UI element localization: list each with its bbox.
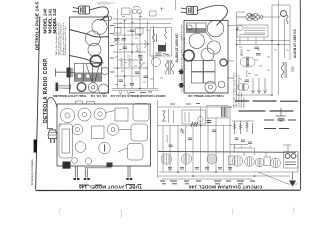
tube V2 [189, 33, 204, 48]
box mid [92, 126, 105, 139]
tuning gang capacitor [74, 64, 101, 82]
speaker [237, 13, 263, 20]
oscillator coil box [182, 110, 206, 124]
leg 1 [74, 166, 80, 180]
note row small 2 [264, 128, 289, 130]
capacitor C7 [130, 84, 135, 86]
choke coil [286, 15, 288, 24]
chassis outline [57, 104, 151, 166]
band switch box [115, 28, 122, 34]
bus labels [130, 91, 152, 94]
shaft 1 [179, 70, 185, 75]
leg 3 [126, 166, 132, 180]
resistor R20 [167, 135, 169, 143]
cord label [59, 124, 63, 126]
tube V3 [88, 43, 101, 56]
svg-text:*75 2nd Det. A.V.C. Diode Pla: *75 2nd Det. A.V.C. Diode Plate 45 V. [238, 74, 241, 108]
bottom bus 3 [162, 178, 252, 180]
dial cable [70, 30, 109, 38]
resistor R2 [129, 58, 131, 67]
company name DETROLA RADIO CORP. [43, 57, 49, 123]
cord to chassis [47, 97, 57, 130]
power transformer [240, 57, 255, 68]
bus labels [170, 103, 200, 106]
top bus wire [113, 19, 173, 24]
interstage transformer [238, 83, 249, 91]
svg-text:Schematics.Nostalgia: Schematics.Nostalgia [31, 159, 34, 186]
mid bus [158, 125, 233, 127]
svg-text:*80 Rectifier: *80 Rectifier [243, 97, 246, 108]
component labels [115, 17, 163, 86]
dial lamp [99, 84, 109, 94]
electrolytic arrows [252, 78, 267, 94]
capacitor C2 [123, 47, 128, 49]
can bottom right [118, 144, 143, 161]
padder cap [207, 121, 212, 123]
footnote row 1 [235, 100, 298, 102]
label dashes zone6 [239, 47, 289, 79]
svg-text:CIRCUIT DIAGRAM MODEL 146: CIRCUIT DIAGRAM MODEL 146 [188, 184, 262, 189]
output transformer windings [165, 60, 173, 75]
variable capacitor arrow [113, 38, 119, 44]
tuning gang [187, 23, 207, 33]
svg-text:140, 141, 142: 140, 141, 142 [90, 94, 107, 98]
caption circuit diagram 146 [188, 184, 262, 189]
dial lamp [220, 59, 227, 66]
dial cord line [161, 0, 176, 11]
top tabs [76, 101, 95, 104]
osc coil dark [158, 45, 166, 52]
svg-text:*41 Power Output: *41 Power Output [240, 92, 243, 108]
diagonal wire [258, 172, 298, 184]
vertical wires [237, 1, 291, 96]
tube D [72, 124, 83, 135]
field coil box [236, 25, 268, 37]
capacitor C12 [245, 80, 250, 82]
coupling coil dark [191, 122, 198, 127]
resistor R3 [145, 40, 147, 48]
caption tube layout model 146 [79, 184, 142, 189]
leg 2 [84, 168, 112, 180]
socket rect A [229, 156, 235, 165]
scan smudge [96, 1, 116, 4]
capacitor C10 [255, 47, 260, 49]
tube V5 [101, 67, 108, 74]
capacitor C20 [169, 145, 173, 147]
tube V1 [92, 19, 107, 34]
capacitor C21 [188, 138, 192, 140]
footnote column [181, 23, 186, 92]
shielded coil [77, 83, 86, 92]
rectifier label [292, 66, 295, 72]
bottom bus wire [112, 89, 158, 91]
left edge wire [157, 101, 159, 179]
capacitor C4 [138, 56, 143, 58]
dark part mid [107, 163, 113, 168]
trimmer cap [180, 128, 185, 134]
power transformer [59, 124, 73, 158]
antenna transformer [133, 7, 142, 14]
chassis outline [184, 21, 228, 94]
tube V1 [207, 20, 224, 37]
svg-text:CIRCUIT DIAGRAM MODELS 140-141: CIRCUIT DIAGRAM MODELS 140-141-142 [110, 94, 165, 98]
tube circle small [151, 57, 160, 66]
align note 1 [175, 33, 179, 63]
resistor R11 [246, 70, 248, 77]
coupling caps row [168, 168, 232, 170]
capacitor C5 [135, 72, 140, 74]
power plug [73, 6, 90, 14]
IF can C [192, 72, 204, 83]
bypass cap C8 [122, 39, 127, 41]
junction dots [236, 40, 280, 96]
trimmer capacitors [156, 53, 170, 55]
tube V5 146 [245, 157, 255, 167]
foot labels [79, 184, 142, 187]
bottom bus 2 [158, 175, 291, 177]
antenna coil box [162, 109, 174, 123]
caption circuit 140-142 [110, 94, 165, 98]
svg-text:*25Z5 Rectifier Cathode 110 V: *25Z5 Rectifier Cathode 110 V. A.C. [64, 25, 67, 55]
socket rect B [264, 157, 271, 166]
wire rows [113, 28, 150, 77]
footnote row 2 [239, 110, 294, 112]
tube V4 146 [232, 156, 242, 166]
filter choke [281, 62, 286, 78]
capacitor C22 [212, 130, 216, 132]
tube V7 146 [271, 158, 281, 168]
bus wires [236, 41, 290, 45]
IF can A [192, 61, 204, 72]
can mid right [131, 124, 148, 141]
tube C with arrow [94, 108, 115, 120]
black redaction bar on border [34, 140, 37, 153]
B+ bus line [158, 151, 296, 154]
detector box [136, 28, 144, 34]
rectifier tube [88, 83, 98, 93]
speaker cable [70, 56, 104, 64]
oscillator coil box [122, 8, 131, 15]
svg-text:ALIGN AT 1650 KC: ALIGN AT 1650 KC [293, 28, 297, 58]
capacitor C11 [256, 54, 261, 56]
vertical wires [163, 107, 230, 172]
RF choke box [150, 11, 157, 16]
tube V1 146 [161, 154, 171, 164]
output IF can [284, 152, 299, 169]
svg-text:TUBE LAYOUT MODELS: TUBE LAYOUT MODELS [55, 94, 86, 98]
IF can D [204, 72, 216, 83]
tube V4 [201, 48, 214, 61]
capacitor C6 [119, 80, 124, 82]
header MODEL 140 [43, 8, 48, 33]
small tube [218, 81, 225, 88]
caption tube layout 146 top [188, 94, 224, 98]
rectifier tube [205, 81, 216, 92]
header MODEL 142 [52, 8, 57, 33]
wire to tubes [254, 148, 256, 155]
tube G [99, 142, 111, 154]
tube V6 146 [255, 158, 264, 167]
page border bottom [36, 189, 301, 191]
output tube [281, 11, 287, 17]
arrow marks [119, 92, 130, 95]
speaker connection [95, 64, 100, 84]
svg-text:*6A7 1st Det. Oscillator Grid: *6A7 1st Det. Oscillator Grid 2.0 V. 90 … [232, 72, 235, 108]
scan artifact parens [59, 208, 294, 218]
wire top [237, 5, 291, 17]
svg-text:ALIGN AT 1650 KC: ALIGN AT 1650 KC [175, 33, 179, 63]
capacitor C1 [115, 39, 120, 41]
grid cap lead [86, 64, 93, 83]
page border left (top edge of rotated page) [36, 17, 40, 190]
tube V2 [85, 31, 100, 46]
page border right [299, 0, 301, 190]
note row small 1 [264, 119, 296, 121]
resistor R10 [241, 49, 243, 55]
svg-text:TUBE LAYOUT MODEL 146: TUBE LAYOUT MODEL 146 [79, 184, 142, 189]
tube V4 shielded [90, 55, 101, 66]
junction dots [117, 20, 149, 90]
bus drops [230, 145, 291, 158]
watermark Schematics.Nostalgia [31, 159, 34, 186]
header MODEL 141 [47, 8, 52, 33]
power plug [181, 7, 198, 15]
tube E with lead [107, 124, 131, 136]
tube labels right [110, 26, 115, 73]
header DETROLA PAGE 14-5 [35, 2, 40, 50]
tuning shaft knob [56, 68, 75, 78]
junction dots [177, 106, 255, 177]
box top right [115, 108, 128, 121]
svg-text:DETROLA RADIO CORP.: DETROLA RADIO CORP. [43, 57, 49, 123]
resistor R1 [121, 58, 123, 67]
power cord [90, 7, 109, 21]
small part 1 [72, 158, 78, 164]
antenna symbol [276, 108, 286, 122]
box drop wires [240, 38, 264, 45]
tube V2 146 [181, 154, 191, 164]
chassis link wires [228, 26, 237, 79]
capacitor C3 [130, 30, 135, 32]
volume shaft [56, 83, 71, 92]
caption tube layout 140-142 [53, 94, 108, 98]
IF coil windings [153, 29, 157, 43]
tube V3 146 [207, 154, 217, 164]
power plug hanging [48, 130, 57, 143]
bottom bus 1 [159, 171, 298, 173]
dial assembly [133, 104, 149, 122]
grid lead [206, 33, 212, 41]
right edge wire [297, 152, 299, 173]
wire bottom [237, 94, 273, 96]
tube B [78, 108, 91, 121]
vertical wires [118, 9, 154, 89]
power cord [198, 5, 228, 25]
tube F [75, 142, 86, 153]
shielded tube [183, 50, 194, 61]
bypass cap C9 [144, 76, 149, 78]
svg-text:25Z5: 25Z5 [292, 66, 295, 72]
align note 2 [293, 28, 297, 58]
chassis outline [70, 17, 109, 93]
ground [289, 172, 296, 187]
IF winding A [165, 28, 167, 46]
top bus [158, 106, 233, 108]
antenna terminal strip [104, 16, 112, 21]
speaker tube [60, 108, 74, 122]
grid resistor [137, 44, 139, 53]
shaft 2 [179, 83, 185, 88]
IF can B [204, 61, 216, 72]
svg-text:DETROLA PAGE 14-5: DETROLA PAGE 14-5 [35, 2, 40, 50]
tube V3 [207, 41, 220, 54]
IF transformer can [150, 28, 172, 57]
tube complement list model 146 [232, 72, 245, 108]
small part 2 [85, 158, 91, 164]
AVC resistor network [232, 121, 255, 148]
IF transformer box [207, 106, 228, 119]
dark knob [63, 162, 71, 169]
value labels row [160, 181, 255, 184]
svg-text:TUBE LAYOUT MODEL 146: TUBE LAYOUT MODEL 146 [188, 94, 224, 98]
tube complement list models 140-142 [55, 21, 67, 55]
coupling coil [140, 58, 142, 69]
